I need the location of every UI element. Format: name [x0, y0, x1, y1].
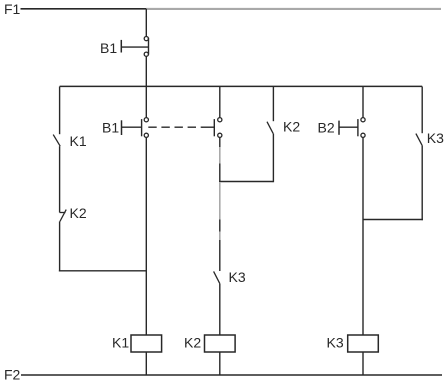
push button B2 (NO open): [339, 118, 365, 138]
wire contact K2 to join: [272, 134, 274, 183]
label B1 (second pole): [102, 119, 119, 135]
svg-text:F2: F2: [4, 366, 21, 382]
contact K3 (NO, right branch): [416, 134, 422, 146]
label F2: [4, 366, 21, 382]
contact K2 (NO): [267, 122, 273, 134]
wire B1 pole down to coil K1: [145, 137, 147, 335]
push button B1 second pole (NO open): [122, 118, 149, 138]
svg-text:K2: K2: [283, 119, 300, 135]
wire coil K2 to F2: [219, 352, 221, 375]
wire linked contact down (black stub): [219, 137, 221, 147]
wire control bus: [60, 85, 423, 87]
contact K2 (NC): [60, 210, 67, 222]
mechanical link (dashed): [148, 126, 202, 128]
wire segment (black): [219, 164, 221, 183]
svg-text:K3: K3: [229, 269, 246, 285]
svg-text:B1: B1: [102, 119, 119, 135]
svg-text:K2: K2: [70, 205, 87, 221]
wire join right branch: [363, 219, 423, 221]
wire bus to contact K3: [421, 87, 423, 134]
coil K1: [131, 335, 162, 352]
svg-text:B1: B1: [100, 40, 117, 56]
label K3 (coil): [327, 335, 344, 351]
wire bus to push button B2: [362, 87, 364, 118]
linked contact of B1 (pole 2b): [202, 118, 222, 138]
wire F1 rail (gray segment): [146, 8, 441, 10]
svg-text:K1: K1: [70, 133, 87, 149]
wire join middle branch: [219, 181, 273, 183]
wire bus to contact K2: [272, 87, 274, 122]
svg-text:B2: B2: [318, 119, 335, 135]
coil K2: [205, 335, 236, 352]
wire bus to contact K1: [59, 87, 61, 135]
label K2 (coil): [184, 335, 201, 351]
wire segment (gray): [219, 183, 221, 220]
wire B2 to coil K3: [362, 137, 364, 335]
wire segment (black): [219, 220, 221, 232]
wire segment (short gray): [219, 232, 221, 241]
label K2 (NC contact): [70, 205, 87, 221]
label K3 (middle contact): [229, 269, 246, 285]
wire contact K3 to coil K2: [219, 284, 221, 335]
wire B1 to bus / down to coil K1: [145, 56, 147, 117]
wire seal-in join to K1 coil branch: [59, 270, 146, 272]
label F1: [4, 1, 21, 17]
wire contact K3 to corner: [421, 145, 423, 220]
wire coil K1 to F2: [145, 352, 147, 375]
label B2: [318, 119, 335, 135]
svg-text:K3: K3: [327, 335, 344, 351]
wire F1 rail (black segment): [21, 8, 147, 10]
svg-text:F1: F1: [4, 1, 21, 17]
svg-text:K3: K3: [427, 130, 444, 146]
wire segment (gray): [219, 147, 221, 164]
wire coil K3 to F2: [362, 352, 364, 375]
wire bus to linked contact: [219, 87, 221, 118]
wire F1 to B1: [145, 9, 147, 37]
push button B1 (NO, shown closed): [121, 37, 148, 57]
label B1 (top push button): [100, 40, 117, 56]
wire segment (black) to contact K3: [219, 240, 221, 271]
coil K3: [348, 335, 379, 352]
label K3 (right contact): [427, 130, 444, 146]
wire contact K2 to seal-in corner: [59, 222, 61, 272]
svg-text:K1: K1: [112, 335, 129, 351]
contact K3 (NO, middle branch): [214, 271, 220, 283]
svg-text:K2: K2: [184, 335, 201, 351]
wire contact K1 to contact K2: [59, 146, 61, 212]
label K1 (coil): [112, 335, 129, 351]
label K1 (contact): [70, 133, 87, 149]
contact K1 (NO): [53, 135, 60, 147]
wire F2 rail: [21, 374, 442, 376]
label K2 (NO contact): [283, 119, 300, 135]
